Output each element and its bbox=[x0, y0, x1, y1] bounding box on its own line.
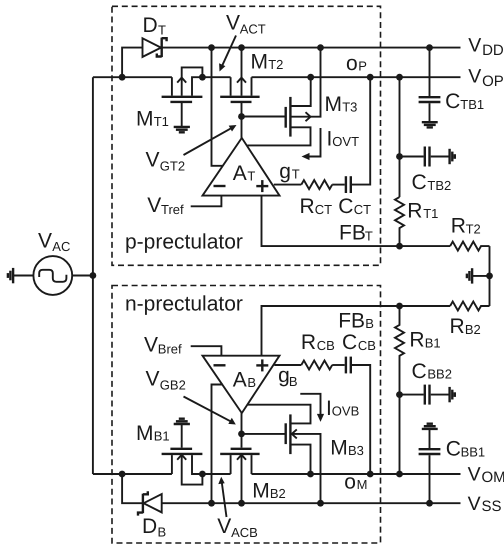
junction R_B1 bottom dot bbox=[396, 471, 403, 478]
wire R_CB to C_CB bbox=[332, 364, 345, 366]
svg-text:TB2: TB2 bbox=[427, 178, 451, 193]
svg-text:BB2: BB2 bbox=[427, 367, 452, 382]
svg-text:T: T bbox=[365, 229, 373, 244]
svg-text:R: R bbox=[409, 328, 424, 351]
svg-text:T2: T2 bbox=[466, 221, 481, 236]
svg-text:D: D bbox=[142, 515, 157, 538]
svg-text:M: M bbox=[251, 50, 269, 73]
svg-text:T: T bbox=[292, 167, 300, 182]
svg-text:GT2: GT2 bbox=[160, 158, 185, 173]
annotation arrow V_ACB bbox=[218, 477, 226, 517]
junction C_TB1 dot bbox=[426, 44, 433, 51]
svg-text:B: B bbox=[247, 375, 256, 390]
annotation arrow V_GB2 bbox=[184, 397, 236, 425]
svg-text:A: A bbox=[233, 162, 247, 185]
svg-text:C: C bbox=[342, 331, 357, 354]
svg-text:R: R bbox=[407, 199, 422, 222]
svg-text:R: R bbox=[301, 331, 316, 354]
ground (C_TB2, signal) bbox=[450, 149, 455, 164]
wire g_B bbox=[274, 364, 301, 366]
svg-text:V: V bbox=[147, 194, 161, 217]
svg-text:GB2: GB2 bbox=[160, 378, 186, 393]
wire V_SS to op-amp supply bbox=[212, 385, 223, 504]
op-amp A_T bbox=[203, 138, 280, 196]
rail V_OP bbox=[252, 76, 461, 78]
svg-text:C: C bbox=[445, 90, 460, 113]
junction V_SS supply dot bbox=[208, 500, 215, 507]
junction M_B3 bulk dot bbox=[317, 500, 324, 507]
resistor R_T2 bbox=[450, 242, 489, 251]
capacitor C_TB2 bbox=[400, 147, 450, 167]
junction C_CT riser dot bbox=[367, 74, 374, 81]
junction dot bottom-left bbox=[119, 471, 126, 478]
dashed box n-prectulator bbox=[112, 286, 381, 544]
svg-text:P: P bbox=[358, 59, 367, 74]
junction dot top-left bbox=[119, 74, 126, 81]
source V_AC bbox=[13, 256, 93, 295]
svg-text:M: M bbox=[252, 479, 270, 502]
capacitor C_CT bbox=[346, 176, 351, 193]
resistor R_CB bbox=[301, 361, 332, 370]
svg-text:FB: FB bbox=[339, 221, 366, 244]
diode D_T bbox=[143, 38, 167, 58]
rail V_SS bbox=[162, 502, 461, 504]
junction C_BB1 dot bbox=[426, 500, 433, 507]
svg-text:R: R bbox=[451, 214, 466, 237]
svg-text:T1: T1 bbox=[154, 114, 169, 129]
svg-text:SS: SS bbox=[482, 498, 502, 515]
junction C_CB riser dot bbox=[367, 471, 374, 478]
rail V_DD bbox=[162, 47, 461, 49]
annotation arrow V_ACT bbox=[219, 36, 236, 72]
ground (mid, signal) bbox=[467, 268, 472, 283]
svg-text:BB1: BB1 bbox=[461, 445, 486, 460]
svg-text:V: V bbox=[468, 65, 481, 87]
svg-text:B: B bbox=[365, 316, 374, 331]
wire FB_T to R_T2 bbox=[400, 245, 451, 247]
svg-text:B1: B1 bbox=[425, 336, 441, 351]
svg-text:M: M bbox=[330, 437, 348, 460]
svg-text:n-prectulator: n-prectulator bbox=[125, 292, 243, 315]
transistor M_B2 bbox=[220, 434, 259, 503]
transistor M_B1 bbox=[162, 424, 203, 484]
svg-text:C: C bbox=[446, 437, 461, 460]
svg-text:OVB: OVB bbox=[332, 404, 359, 419]
junction M_T1 drain dot bbox=[199, 74, 206, 81]
svg-text:TB1: TB1 bbox=[460, 97, 484, 112]
svg-text:g: g bbox=[279, 160, 291, 183]
wire o_M row M_B1 to M_B2 bbox=[202, 473, 230, 475]
svg-text:T2: T2 bbox=[268, 57, 283, 72]
wire g_T bbox=[274, 184, 302, 186]
junction M_B2 source dot bbox=[238, 500, 245, 507]
svg-text:T: T bbox=[247, 169, 255, 184]
svg-text:OVT: OVT bbox=[332, 134, 359, 149]
capacitor C_CB bbox=[346, 357, 351, 374]
svg-text:V: V bbox=[468, 35, 481, 57]
svg-text:V: V bbox=[38, 229, 52, 252]
svg-text:CB: CB bbox=[358, 338, 376, 353]
svg-text:CT: CT bbox=[315, 202, 332, 217]
svg-text:M: M bbox=[136, 422, 154, 445]
junction M_B1 dot bbox=[199, 471, 206, 478]
svg-text:CB: CB bbox=[317, 338, 335, 353]
capacitor C_BB1 bbox=[419, 430, 441, 503]
rail V_OM bbox=[252, 473, 461, 475]
resistor R_T1 bbox=[395, 197, 404, 246]
ground (C_BB1, inverted) bbox=[422, 424, 438, 429]
junction mid ground dot bbox=[486, 273, 493, 280]
svg-text:ACB: ACB bbox=[231, 525, 258, 540]
resistor R_B2 bbox=[450, 302, 489, 311]
svg-text:C: C bbox=[412, 360, 427, 383]
svg-text:M: M bbox=[357, 477, 368, 492]
wire FB_B bbox=[262, 306, 451, 356]
svg-text:R: R bbox=[450, 315, 465, 338]
svg-text:OP: OP bbox=[482, 73, 504, 90]
wire R_CT to C_CT bbox=[332, 184, 345, 186]
ground (signal, left of V_AC) bbox=[8, 268, 13, 283]
transistor M_T2 bbox=[220, 48, 259, 117]
ground (M_B1 gate, inverted) bbox=[174, 419, 190, 424]
svg-text:V: V bbox=[146, 148, 160, 171]
junction V_DD supply dot bbox=[208, 44, 215, 51]
svg-text:V: V bbox=[144, 333, 158, 356]
wire o_M row left bbox=[93, 473, 172, 475]
svg-text:B3: B3 bbox=[348, 443, 364, 458]
svg-text:V: V bbox=[146, 368, 160, 391]
svg-text:B: B bbox=[158, 524, 167, 539]
svg-text:T3: T3 bbox=[342, 100, 357, 115]
svg-text:B2: B2 bbox=[270, 486, 286, 501]
svg-text:A: A bbox=[233, 369, 247, 392]
diode D_B bbox=[138, 491, 162, 515]
svg-text:R: R bbox=[300, 195, 315, 218]
node V_GT2 bbox=[238, 113, 284, 138]
svg-text:C: C bbox=[338, 195, 353, 218]
junction FB_B dot bbox=[396, 303, 403, 310]
dashed box p-prectulator bbox=[112, 6, 381, 265]
svg-text:V: V bbox=[468, 463, 481, 485]
svg-text:M: M bbox=[325, 93, 343, 116]
svg-text:T1: T1 bbox=[423, 206, 438, 221]
svg-text:V: V bbox=[226, 12, 240, 35]
svg-text:OM: OM bbox=[482, 469, 504, 486]
svg-text:V: V bbox=[468, 493, 481, 515]
node V_GB2 bbox=[238, 413, 284, 437]
svg-text:DD: DD bbox=[482, 42, 504, 59]
wire C_CB to o_M bbox=[352, 365, 370, 474]
junction C_BB2 dot bbox=[396, 391, 403, 398]
svg-text:C: C bbox=[412, 171, 427, 194]
svg-text:ACT: ACT bbox=[240, 21, 266, 36]
op-amp A_B bbox=[203, 356, 280, 413]
junction FB_T dot bbox=[396, 243, 403, 250]
resistor R_B1 bbox=[395, 306, 404, 474]
wire mid column bbox=[489, 246, 491, 306]
junction V_AC node bbox=[90, 272, 97, 279]
svg-text:B2: B2 bbox=[465, 322, 481, 337]
wire input column bbox=[92, 77, 94, 474]
svg-text:FB: FB bbox=[338, 309, 365, 332]
junction R_T1 riser dot bbox=[396, 74, 403, 81]
junction M_B3 drain dot bbox=[307, 471, 314, 478]
junction M_T3 drain dot bbox=[307, 74, 314, 81]
wire V_Bref bbox=[191, 346, 222, 356]
svg-text:Tref: Tref bbox=[161, 202, 184, 217]
wire D_B cathode bbox=[122, 474, 142, 503]
svg-text:V: V bbox=[217, 515, 231, 538]
svg-text:Bref: Bref bbox=[158, 342, 182, 357]
wire FB_T bbox=[262, 196, 400, 247]
transistor M_T3 bbox=[248, 48, 321, 146]
wire mid ground bbox=[473, 275, 490, 277]
capacitor C_TB1 bbox=[419, 48, 441, 122]
wire top-left row to M_T1 bbox=[93, 76, 172, 78]
capacitor C_BB2 bbox=[400, 385, 450, 405]
wire V_Tref bbox=[191, 196, 222, 207]
wire o_P row M_T1 to M_T2 bbox=[202, 76, 230, 78]
svg-text:o: o bbox=[346, 52, 358, 75]
transistor M_T1 bbox=[162, 67, 203, 126]
svg-text:B1: B1 bbox=[154, 429, 170, 444]
wire V_DD to op-amp supply bbox=[212, 48, 223, 166]
svg-text:D: D bbox=[143, 14, 158, 37]
svg-text:B: B bbox=[289, 374, 298, 389]
ground (M_T1 gate) bbox=[174, 127, 190, 132]
junction C_TB2 dot bbox=[396, 153, 403, 160]
svg-text:o: o bbox=[344, 471, 356, 494]
wire V_OP to R_T1 riser bbox=[399, 77, 401, 197]
svg-text:AC: AC bbox=[52, 239, 70, 254]
current arrow I_OVB bbox=[300, 394, 324, 422]
ground (C_BB2, signal) bbox=[450, 387, 455, 402]
ground (C_TB1) bbox=[422, 122, 438, 127]
svg-text:p-prectulator: p-prectulator bbox=[125, 231, 243, 254]
wire D_T anode bbox=[122, 48, 142, 78]
svg-text:CT: CT bbox=[354, 202, 371, 217]
svg-text:T: T bbox=[158, 22, 166, 37]
junction M_T2 source dot bbox=[238, 44, 245, 51]
wire C_CT to o_P bbox=[352, 77, 370, 184]
resistor R_CT bbox=[301, 180, 332, 189]
svg-text:M: M bbox=[136, 107, 154, 130]
current arrow I_OVT bbox=[302, 128, 321, 160]
junction M_T3 bulk dot bbox=[317, 44, 324, 51]
transistor M_B3 bbox=[248, 405, 321, 504]
annotation arrow V_GT2 bbox=[184, 125, 237, 155]
